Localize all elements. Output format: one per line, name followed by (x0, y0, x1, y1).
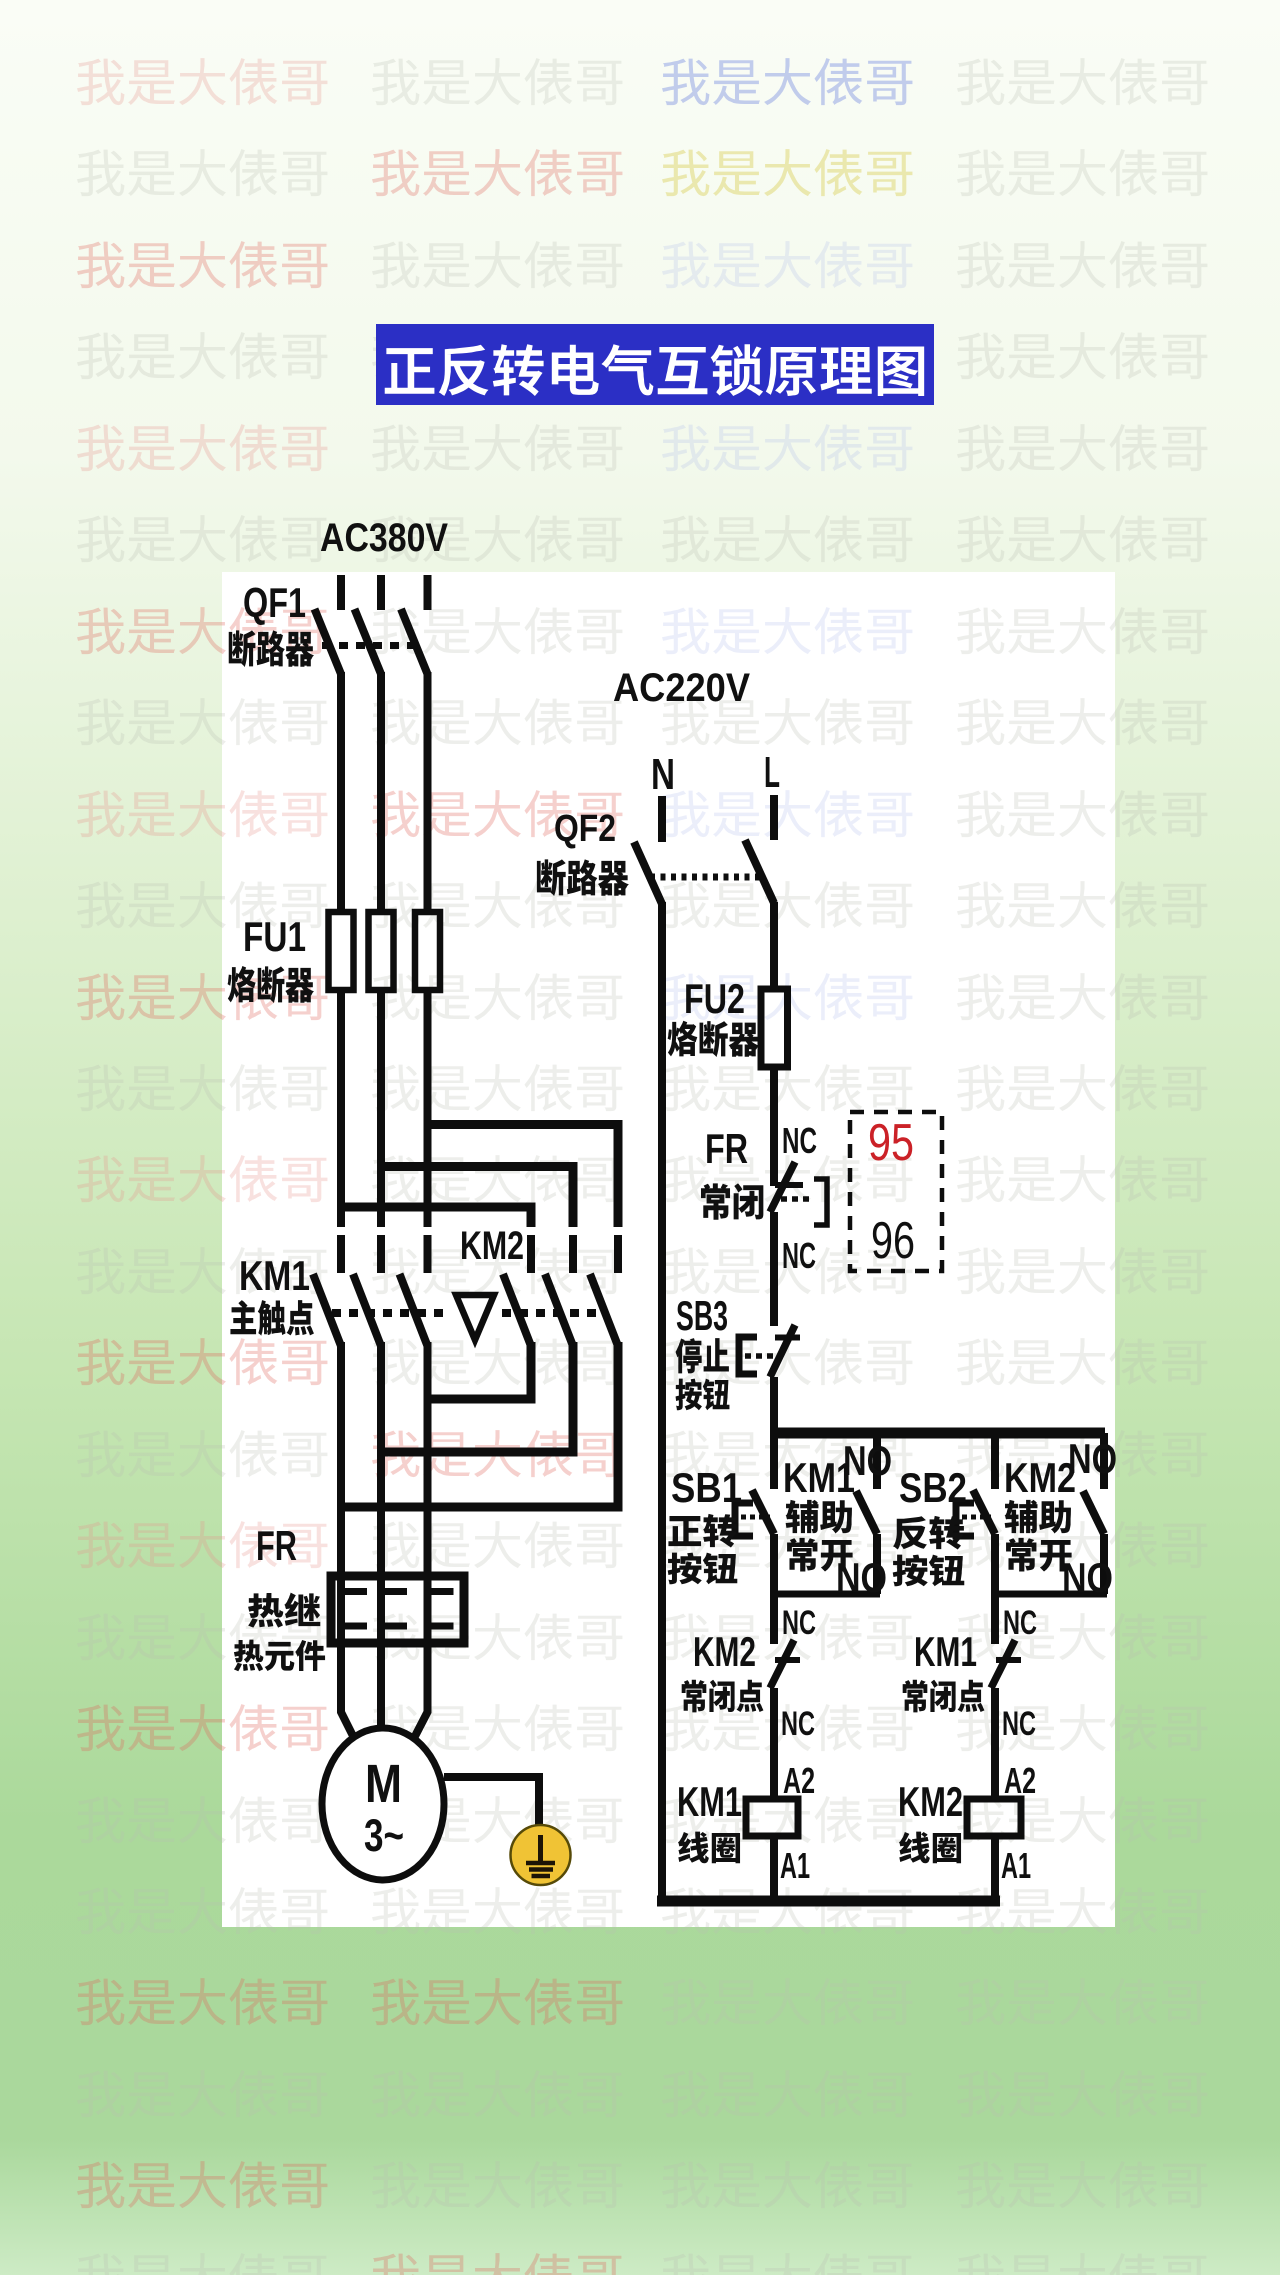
svg-text:QF1: QF1 (243, 579, 306, 626)
wire KM2 pole a to L3 (428, 1342, 532, 1399)
svg-text:A1: A1 (780, 1845, 810, 1886)
contact KM2 interlock NC (770, 1594, 778, 1644)
thermal relay FR NC contact (775, 1182, 803, 1188)
svg-text:KM1: KM1 (677, 1778, 742, 1825)
coil KM1 (746, 1799, 798, 1836)
wire SB3 to bus (770, 1377, 778, 1438)
svg-text:FR: FR (256, 1522, 297, 1569)
terminal numbers dashed box (850, 1112, 942, 1271)
svg-text:A2: A2 (783, 1760, 815, 1801)
wire KM2 coil to bottom bus (991, 1836, 999, 1901)
svg-text:NC: NC (781, 1705, 815, 1743)
wire FR to SB3 (770, 1212, 778, 1326)
svg-text:SB1: SB1 (671, 1464, 742, 1511)
FR trip actuator bracket (814, 1179, 827, 1225)
thermal relay FR heater box (331, 1576, 464, 1643)
pushbutton SB1 actuator (735, 1503, 753, 1536)
svg-text:KM1: KM1 (914, 1628, 977, 1675)
svg-text:NC: NC (782, 1120, 817, 1161)
svg-text:SB2: SB2 (899, 1464, 967, 1511)
svg-text:FU2: FU2 (684, 975, 745, 1022)
svg-text:N: N (651, 750, 675, 799)
wire branch L3 to KM2 pole c (428, 1125, 619, 1228)
wire L3 QF1 to FU1 (424, 672, 432, 914)
svg-text:96: 96 (871, 1212, 915, 1270)
svg-text:NC: NC (782, 1604, 816, 1642)
linkage triangle marker (456, 1295, 494, 1340)
wire L QF2 to FU2 (770, 902, 778, 992)
svg-text:NO: NO (1068, 1435, 1117, 1482)
svg-text:L: L (764, 748, 780, 797)
breaker QF2 (634, 842, 662, 904)
wire L1 to motor (341, 1342, 356, 1742)
svg-text:NO: NO (843, 1437, 892, 1484)
svg-text:NO: NO (1062, 1554, 1113, 1601)
node L terminal (770, 795, 778, 840)
svg-text:KM1: KM1 (239, 1252, 310, 1299)
node AC380V supply stubs (337, 575, 345, 610)
wire L2 QF1 to FU1 (377, 672, 385, 914)
parallel branch box SB2 / KM2 aux NO (991, 1433, 999, 1489)
svg-text:KM2: KM2 (1004, 1454, 1076, 1501)
white diagram panel (222, 572, 1115, 1927)
coil KM2 (967, 1799, 1021, 1836)
wire N down to bottom bus (658, 902, 666, 1901)
title bar (376, 324, 934, 405)
wire branch L2 to KM2 pole b (381, 1167, 573, 1228)
svg-text:SB3: SB3 (676, 1292, 728, 1339)
svg-text:KM2: KM2 (460, 1224, 524, 1268)
svg-text:KM2: KM2 (693, 1628, 756, 1675)
breaker QF1 (315, 609, 342, 674)
svg-text:NO: NO (836, 1554, 887, 1601)
contactor KM2 main contacts (527, 1235, 535, 1273)
fuse FU2 (761, 989, 788, 1067)
wire KM2 pole c to L1 (341, 1342, 618, 1507)
svg-text:A1: A1 (1001, 1845, 1031, 1886)
svg-text:AC220V: AC220V (613, 666, 750, 710)
svg-text:3~: 3~ (364, 1810, 404, 1861)
pushbutton SB2 actuator (956, 1503, 974, 1536)
wire FU2 to FR contact (770, 1067, 778, 1186)
node N terminal (658, 796, 666, 842)
wire branch L1 to KM2 pole a (341, 1207, 531, 1227)
wire L1 QF1 to FU1 (337, 672, 345, 914)
svg-text:A2: A2 (1004, 1760, 1036, 1801)
wire L3 FU1 to KM1 (424, 990, 432, 1227)
svg-text:M: M (365, 1754, 402, 1814)
svg-text:NC: NC (1002, 1705, 1036, 1743)
svg-text:NC: NC (782, 1235, 816, 1276)
wire KM1 coil to bottom bus (770, 1836, 778, 1901)
wire motor to ground (444, 1777, 539, 1827)
wire KM2 pole b to L2 (381, 1342, 573, 1452)
contact KM1 interlock NC (991, 1594, 999, 1644)
svg-text:NC: NC (1003, 1604, 1037, 1642)
wire L1 FU1 to KM1 (337, 990, 345, 1227)
wire L2 FU1 to KM1 (377, 990, 385, 1227)
motor M (322, 1728, 444, 1880)
svg-text:KM2: KM2 (898, 1778, 963, 1825)
svg-text:QF2: QF2 (554, 808, 616, 850)
pushbutton SB3 stop (NC) (775, 1335, 800, 1341)
svg-text:FR: FR (705, 1125, 748, 1172)
control top bus (770, 1428, 1105, 1439)
parallel branch box SB1 / KM1 aux NO (770, 1433, 778, 1489)
contactor KM1 main contacts (337, 1235, 345, 1273)
ground symbol (511, 1825, 571, 1885)
fuse FU1 (329, 912, 354, 990)
mechanical linkage dashed line (332, 1309, 448, 1317)
control bottom bus (657, 1896, 1000, 1907)
svg-text:FU1: FU1 (243, 913, 306, 960)
svg-text:AC380V: AC380V (320, 516, 448, 560)
wire L3 to motor (412, 1342, 428, 1742)
wire L2 to motor (377, 1342, 385, 1732)
svg-text:95: 95 (868, 1114, 914, 1172)
